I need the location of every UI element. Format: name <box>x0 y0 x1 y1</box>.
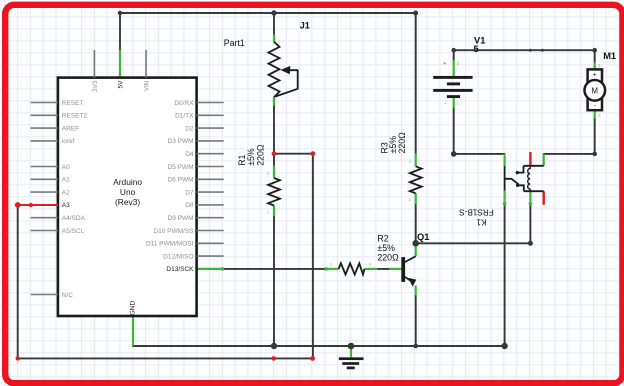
svg-text:220Ω: 220Ω <box>377 253 399 263</box>
svg-text:D4: D4 <box>185 151 194 158</box>
wire R2 to Q1 base <box>377 268 389 270</box>
ground symbol bar 3 <box>347 367 355 370</box>
pin motor 2 green stub <box>594 110 596 119</box>
green endpoint dot relay switch bottom <box>503 202 507 206</box>
bend dot battery wire 1 <box>529 49 532 52</box>
svg-text:AREF: AREF <box>62 125 79 132</box>
svg-text:2: 2 <box>369 262 372 267</box>
green endpoint dot R2 left <box>324 267 328 271</box>
svg-text:FRS1B-S: FRS1B-S <box>459 208 494 217</box>
svg-text:1: 1 <box>267 210 270 215</box>
red junction dot jog right <box>311 151 316 156</box>
motor M1 body <box>588 69 602 110</box>
pin RESET2 <box>31 114 58 116</box>
ground symbol bar 2 <box>342 362 359 365</box>
svg-text:2: 2 <box>267 170 270 175</box>
pin R2 left green stub <box>325 268 339 270</box>
pin A3 <box>31 204 58 206</box>
svg-text:Uno: Uno <box>120 187 136 197</box>
pin relay coil right green stub <box>543 154 545 166</box>
svg-text:220Ω: 220Ω <box>256 144 266 166</box>
wire motor top drop <box>594 50 596 62</box>
wire motor bottom to relay coil <box>544 119 595 154</box>
relay K1 bottom internal line <box>524 190 544 192</box>
pin VIN <box>145 50 147 78</box>
pin GND green stub <box>132 316 134 346</box>
svg-text:RESET2: RESET2 <box>62 113 88 120</box>
corner dot motor bottom <box>592 152 597 157</box>
pin D8 <box>197 204 224 206</box>
pin A2 <box>31 191 58 193</box>
junction dot ground symbol <box>348 343 355 350</box>
pin Q1 emitter green stub <box>415 286 417 296</box>
wire R3 bottom to Q1 collector junction <box>415 204 417 243</box>
wire J1 column down to R3 <box>415 13 417 153</box>
svg-text:+: + <box>593 72 597 79</box>
svg-text:(Rev3): (Rev3) <box>115 197 140 207</box>
pin N/C <box>31 294 58 296</box>
pin R3 bottom green stub <box>415 193 417 204</box>
svg-text:1: 1 <box>330 262 333 267</box>
junction dot Q1 collector <box>412 240 419 247</box>
battery V1 plate long bottom <box>433 89 472 92</box>
relay K1 top internal line <box>524 165 544 167</box>
svg-text:D1/TX: D1/TX <box>175 113 194 120</box>
svg-text:5: 5 <box>474 44 479 54</box>
svg-text:ioref: ioref <box>62 138 75 145</box>
pin D13/SCK green stub <box>197 268 224 270</box>
red dot bottom wire left corner <box>16 356 20 360</box>
pin 3V3 <box>93 50 95 78</box>
corner dot 5V <box>118 11 122 15</box>
svg-text:5V: 5V <box>117 80 124 89</box>
svg-text:Part1: Part1 <box>224 38 245 48</box>
pin R1 bottom green stub <box>273 206 275 217</box>
wire D13/SCK to R2 <box>224 268 325 270</box>
pin battery minus green stub <box>453 97 455 108</box>
resistor R2 zigzag <box>339 263 365 274</box>
wire Q1 junction to relay coil column <box>416 205 531 243</box>
svg-text:D8: D8 <box>185 202 194 209</box>
ground symbol bar 1 <box>339 357 364 360</box>
pin motor 1 green stub <box>594 62 596 69</box>
corner dot J1 right <box>413 11 418 16</box>
green endpoint dot D13 wire <box>221 267 225 271</box>
pin A5/SCL <box>31 230 58 232</box>
svg-text:D9 PWM: D9 PWM <box>168 215 194 222</box>
junction dot J1/pot <box>271 10 276 15</box>
wire top J1 net from 5V to Q1 column <box>120 12 416 14</box>
wire relay switch column to GND rail <box>504 205 506 346</box>
battery V1 plate long top <box>433 76 472 79</box>
svg-text:K1: K1 <box>476 217 486 226</box>
corner dot relay coil link <box>528 241 533 246</box>
svg-text:GND: GND <box>130 301 137 316</box>
svg-text:A3: A3 <box>62 202 70 209</box>
svg-text:VIN: VIN <box>143 80 150 91</box>
wire battery top to motor <box>454 49 595 51</box>
pin A1 <box>31 178 58 180</box>
pin 5V green stub <box>119 50 121 78</box>
junction dot R1/GND rail <box>271 343 277 349</box>
svg-text:1: 1 <box>409 197 412 202</box>
pin RESET <box>31 102 58 104</box>
transistor Q1 emitter arrowhead <box>408 278 416 287</box>
red junction dot bottom wire end <box>310 356 315 361</box>
corner dot battery top <box>451 48 456 53</box>
svg-text:3V3: 3V3 <box>92 80 99 92</box>
pin D10 PWM/SS <box>197 230 224 232</box>
svg-text:A5/SCL: A5/SCL <box>62 228 85 235</box>
wire Q1 emitter drop <box>415 295 417 346</box>
svg-text:D5 PWM: D5 PWM <box>168 164 194 171</box>
pin D4 <box>197 153 224 155</box>
pin D2 <box>197 127 224 129</box>
wire pot bottom to R1 top <box>273 105 275 153</box>
junction dot GND rail end <box>501 343 507 349</box>
svg-text:D13/SCK: D13/SCK <box>166 266 194 273</box>
wire column B (A3 net vertical) <box>312 154 314 359</box>
pin D11 PWM/MOSI <box>197 242 224 244</box>
svg-text:D0/RX: D0/RX <box>174 100 194 107</box>
pin D12/MISO <box>197 255 224 257</box>
motor M1 circle <box>585 80 606 101</box>
relay K1 upper contact lead <box>517 166 523 173</box>
potentiometer Part1 zigzag <box>269 42 280 98</box>
pin D9 PWM <box>197 217 224 219</box>
pin Q1 collector green stub <box>415 247 417 257</box>
pin relay coil bottom green stub <box>529 191 531 205</box>
svg-text:+: + <box>443 61 446 67</box>
wire battery plus stub <box>453 50 455 60</box>
potentiometer wiper arrowhead <box>281 66 291 74</box>
wire R1 bottom to GND rail <box>273 216 275 346</box>
svg-text:D11 PWM/MOSI: D11 PWM/MOSI <box>146 241 194 248</box>
svg-text:±5%: ±5% <box>377 243 395 253</box>
svg-text:1: 1 <box>457 100 460 105</box>
relay K1 upper contact dot <box>516 171 519 174</box>
resistor R1 zigzag <box>268 178 280 206</box>
svg-text:D6 PWM: D6 PWM <box>168 177 194 184</box>
pin A0 <box>31 166 58 168</box>
corner dot motor top <box>592 48 597 53</box>
svg-text:D12/MISO: D12/MISO <box>163 253 193 260</box>
svg-text:R2: R2 <box>377 233 388 243</box>
wire A3 red segment <box>18 204 58 206</box>
ground symbol green stub <box>350 346 352 357</box>
pin relay coil top red stub (unconnected) <box>529 152 531 166</box>
pin battery plus green stub <box>453 60 455 76</box>
pin relay switch bottom green stub <box>504 191 506 206</box>
svg-text:A2: A2 <box>62 189 70 196</box>
resistor R3 zigzag <box>410 166 422 193</box>
transistor Q1 base bar <box>401 257 405 282</box>
svg-text:1: 1 <box>598 63 601 68</box>
svg-text:J1: J1 <box>300 20 310 30</box>
relay K1 coil <box>528 166 531 191</box>
red junction dot A3 wire end (over) <box>15 202 21 208</box>
relay K1 switch common line <box>504 166 506 191</box>
pin AREF <box>31 127 58 129</box>
wire bottom A3 net <box>18 357 313 359</box>
svg-text:N/C: N/C <box>62 292 74 299</box>
bend dot battery wire 2 <box>541 49 544 52</box>
wire battery minus drop <box>453 108 455 154</box>
svg-text:D2: D2 <box>185 125 194 132</box>
svg-text:D3 PWM: D3 PWM <box>168 138 194 145</box>
pin ioref <box>31 140 58 142</box>
svg-text:-: - <box>594 103 596 110</box>
relay K1 switch blade <box>505 179 519 185</box>
svg-text:RESET: RESET <box>62 100 84 107</box>
svg-text:-: - <box>444 100 446 106</box>
svg-text:A4/SDA: A4/SDA <box>62 215 86 222</box>
transistor Q1 collector line <box>405 256 416 262</box>
svg-text:D7: D7 <box>185 189 194 196</box>
svg-text:Q1: Q1 <box>417 232 429 242</box>
arduino U1 body <box>58 78 197 316</box>
wire GND rail <box>133 345 505 347</box>
pin relay right bottom red stub (unconnected) <box>543 191 545 205</box>
pin A4/SDA <box>31 217 58 219</box>
junction dot battery minus <box>451 151 457 157</box>
svg-text:2: 2 <box>409 159 412 164</box>
relay K1 lower contact dot <box>516 184 519 187</box>
battery V1 plate short bottom <box>447 95 460 98</box>
svg-text:D10 PWM/SS: D10 PWM/SS <box>153 228 194 235</box>
pin R1 top green stub <box>273 166 275 179</box>
svg-text:2: 2 <box>598 113 601 118</box>
svg-text:2: 2 <box>457 61 460 66</box>
svg-text:M1: M1 <box>603 51 616 61</box>
potentiometer wiper path <box>275 70 297 96</box>
pin relay switch top green stub <box>504 154 506 166</box>
green endpoint dot relay coil bottom <box>529 202 533 206</box>
red junction dot jog left <box>272 151 277 156</box>
wire potentiometer riser <box>273 13 275 35</box>
red dot A3 pin end (over) <box>29 203 33 207</box>
battery V1 plate short <box>447 82 460 85</box>
wire 5V riser <box>119 13 121 50</box>
pin pot bottom green stub <box>273 97 275 105</box>
pin Q1 base green stub <box>389 268 402 270</box>
pin R2 right green stub <box>365 268 378 270</box>
pin D3 PWM <box>197 140 224 142</box>
pin D7 <box>197 191 224 193</box>
svg-text:M: M <box>592 86 599 95</box>
transistor Q1 emitter line <box>405 277 410 281</box>
pin pot top green stub <box>273 35 275 42</box>
pin D0/RX <box>197 102 224 104</box>
wire jog at R1 top <box>274 153 313 155</box>
wire jog junction down to R1 <box>273 154 275 166</box>
pin D1/TX <box>197 114 224 116</box>
svg-text:220Ω: 220Ω <box>397 132 407 154</box>
junction dot emitter/GND rail <box>413 344 418 349</box>
svg-text:A0: A0 <box>62 164 70 171</box>
svg-text:A1: A1 <box>62 177 70 184</box>
pin D5 PWM <box>197 166 224 168</box>
red dot bottom wire mid <box>271 356 276 361</box>
wire battery to relay switch <box>454 153 505 155</box>
relay K1 lower contact lead <box>518 185 524 191</box>
pin D6 PWM <box>197 178 224 180</box>
pin R3 top green stub <box>415 153 417 166</box>
wire A3 left column <box>17 205 19 358</box>
svg-text:Arduino: Arduino <box>113 177 142 187</box>
